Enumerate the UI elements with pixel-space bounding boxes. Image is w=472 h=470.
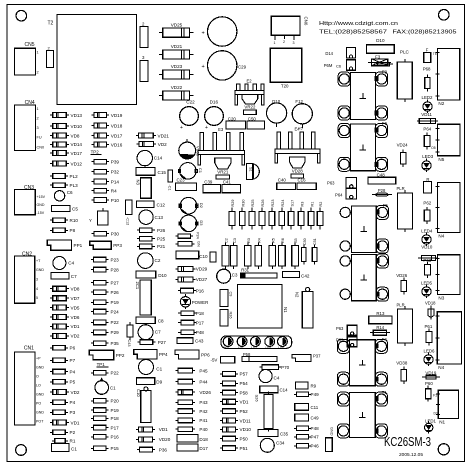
svg-text:P64: P64 [423, 126, 431, 131]
resistor P27 colB [91, 282, 94, 284]
resistor P46b [294, 445, 297, 447]
diode VD29 [176, 268, 179, 270]
svg-text:C6: C6 [336, 63, 342, 68]
svg-text:GND: GND [36, 268, 44, 272]
svg-text:+15V: +15V [37, 195, 46, 199]
relay T1 package [350, 393, 376, 438]
svg-text:C3: C3 [233, 238, 237, 243]
resistor P43 botmid [175, 401, 178, 403]
svg-text:P60: P60 [425, 381, 433, 386]
svg-text:P20: P20 [111, 399, 120, 404]
svg-text:C1: C1 [110, 386, 116, 391]
resistor P3 low [50, 411, 53, 413]
resistor P16 colBlow [91, 436, 94, 438]
diode VD2 mid [50, 335, 53, 337]
resistor C51v [314, 245, 316, 248]
resistor P10 [91, 199, 94, 201]
svg-text:VD29: VD29 [196, 267, 208, 272]
svg-text:P35: P35 [111, 341, 120, 346]
svg-text:VD8: VD8 [71, 133, 80, 138]
svg-text:C5: C5 [72, 207, 78, 212]
svg-text:P26: P26 [157, 228, 166, 233]
diode VD2 low [50, 391, 53, 393]
capacitor C49 [295, 414, 309, 421]
resistor PL2 [50, 175, 53, 177]
svg-text:R10: R10 [70, 218, 79, 223]
resistor P44 botmid [175, 381, 178, 383]
svg-text:P28: P28 [378, 188, 386, 193]
svg-text:GND: GND [36, 411, 44, 415]
relay N1 body [438, 390, 458, 418]
svg-text:C7: C7 [71, 274, 77, 279]
svg-text:P47: P47 [311, 435, 320, 440]
svg-text:D9: D9 [156, 380, 162, 385]
resistor R30 body [241, 208, 243, 212]
diode VD10 [50, 125, 53, 127]
svg-text:VD10: VD10 [421, 245, 433, 250]
svg-text:KC26SM-3: KC26SM-3 [384, 435, 431, 449]
capacitor C-PLC [404, 59, 406, 62]
svg-text:C2: C2 [225, 238, 229, 243]
resistor R26 body [261, 208, 263, 212]
resistor VD38 [403, 367, 405, 370]
svg-text:Http://www.cdzigt.com.cn: Http://www.cdzigt.com.cn [319, 21, 398, 27]
svg-text:R3: R3 [247, 238, 251, 243]
svg-text:P52: P52 [240, 409, 249, 414]
resistor P51 botedge [220, 447, 223, 449]
svg-text:VR22: VR22 [244, 105, 256, 110]
svg-text:VD11: VD11 [421, 112, 432, 117]
svg-text:PLC: PLC [400, 50, 410, 55]
svg-text:PL2: PL2 [70, 174, 79, 179]
svg-text:N4: N4 [438, 234, 444, 239]
crystal Y1 [102, 208, 104, 211]
svg-text:FU: FU [37, 136, 42, 140]
svg-text:C43: C43 [127, 340, 131, 347]
diode VD26 botmid [175, 391, 178, 393]
svg-text:R14: R14 [376, 325, 384, 330]
svg-text:VD14: VD14 [71, 142, 83, 147]
resistor P32 [91, 171, 94, 173]
svg-text:P21: P21 [157, 244, 166, 249]
resistor R10 [50, 219, 53, 221]
svg-text:VD27: VD27 [196, 277, 208, 282]
svg-text:C10: C10 [199, 254, 208, 259]
svg-text:N1: N1 [439, 420, 445, 425]
capacitor C2 [138, 253, 154, 269]
LED1 symbol [428, 421, 430, 424]
svg-text:P28: P28 [111, 267, 120, 272]
svg-text:P22: P22 [111, 371, 120, 376]
transformer T2 [57, 15, 137, 105]
svg-text:CN1: CN1 [24, 346, 34, 352]
svg-text:VD17: VD17 [71, 151, 83, 156]
svg-text:C8: C8 [158, 319, 164, 324]
capacitor D18 [177, 435, 198, 442]
relay N4L body [437, 312, 461, 364]
capacitor C14 [137, 150, 152, 165]
LED4 symbol [426, 232, 428, 235]
svg-text:R5: R5 [272, 238, 276, 243]
svg-text:R31: R31 [241, 268, 249, 273]
svg-text:PP1: PP1 [74, 243, 83, 248]
svg-text:P45: P45 [199, 368, 208, 373]
svg-text:VD8: VD8 [71, 287, 80, 292]
svg-text:C9: C9 [229, 292, 233, 297]
connector CN6 [271, 16, 300, 35]
resistor P29 colB [91, 331, 94, 333]
resistor P48b [294, 427, 297, 429]
svg-text:-5V: -5V [211, 358, 218, 363]
svg-text:T2: T2 [48, 21, 54, 27]
svg-text:GND: GND [36, 393, 44, 397]
svg-text:S17: S17 [290, 200, 294, 207]
resistor P2 low [50, 431, 53, 433]
resistor P61 body [428, 329, 430, 332]
svg-text:P26: P26 [111, 290, 120, 295]
svg-text:+T: +T [36, 259, 41, 263]
svg-text:C29: C29 [238, 65, 247, 70]
svg-text:P30: P30 [111, 232, 120, 237]
svg-text:P63: P63 [327, 181, 335, 186]
diode VD13 [50, 114, 53, 116]
svg-text:2: 2 [283, 40, 285, 44]
diode VD7 mid [50, 297, 53, 299]
svg-text:T20: T20 [281, 84, 289, 89]
svg-text:C43: C43 [195, 339, 204, 344]
capacitor S26 body [268, 392, 270, 395]
svg-text:GND: GND [36, 366, 44, 370]
diode VD20 [136, 438, 139, 440]
svg-text:P42: P42 [199, 409, 208, 414]
svg-text:PP3: PP3 [113, 243, 122, 248]
diode VD16 colB [91, 144, 94, 146]
LED L02 [237, 337, 247, 347]
capacitor small mid [210, 252, 216, 262]
resistor P14 [91, 181, 94, 183]
svg-text:P68: P68 [423, 67, 431, 72]
svg-text:L05: L05 [278, 346, 284, 350]
capacitor C11 [295, 404, 309, 411]
svg-text:P58: P58 [240, 390, 249, 395]
relay N2 body [437, 49, 459, 100]
resistor P63 body [426, 262, 428, 265]
capacitor C43 [177, 338, 193, 344]
svg-text:POWER: POWER [192, 300, 209, 305]
relay F7 package [351, 255, 376, 301]
svg-text:P7: P7 [70, 358, 76, 363]
svg-text:VD1: VD1 [71, 324, 80, 329]
diode VD21c [136, 135, 139, 137]
resistor P15 colBlow [91, 447, 94, 449]
resistor P16 [178, 290, 181, 292]
svg-text:2005.12.05: 2005.12.05 [399, 452, 424, 457]
svg-text:P19: P19 [111, 408, 120, 413]
svg-text:P70: P70 [281, 365, 290, 370]
svg-text:VD21: VD21 [171, 44, 183, 49]
relay N3 body [437, 255, 460, 295]
diode VD18 colB [91, 125, 94, 127]
svg-text:T1: T1 [382, 390, 388, 395]
svg-text:P6: P6 [70, 346, 76, 351]
svg-text:GND: GND [330, 427, 334, 436]
pot PP4 [134, 350, 157, 360]
capacitor C13 [139, 210, 153, 224]
svg-text:5: 5 [36, 296, 38, 300]
svg-text:P16: P16 [196, 288, 205, 293]
svg-text:L02: L02 [238, 346, 244, 350]
svg-text:3: 3 [36, 278, 38, 282]
svg-text:P6M: P6M [324, 63, 333, 68]
vreg VR22 [242, 95, 258, 105]
resistor P18 [178, 312, 181, 314]
resistor P47b [294, 436, 297, 438]
svg-text:CN5: CN5 [25, 42, 35, 48]
svg-text:P14: P14 [111, 179, 120, 184]
svg-text:P27: P27 [111, 281, 120, 286]
svg-text:2: 2 [142, 22, 145, 27]
vreg VR21 [215, 158, 231, 169]
resistor P27 [138, 341, 141, 343]
svg-text:1: 1 [37, 107, 39, 111]
svg-text:P61: P61 [425, 324, 433, 329]
svg-text:C14: C14 [154, 156, 163, 161]
relay F5 package [351, 206, 376, 253]
svg-text:P10: P10 [111, 198, 120, 203]
resistor P17 colBlow [91, 427, 94, 429]
svg-text:P63: P63 [336, 326, 344, 331]
svg-text:P3: P3 [70, 410, 76, 415]
svg-text:LED6: LED6 [424, 349, 436, 354]
resistor P49b [294, 393, 297, 395]
resistor P21 [137, 245, 140, 247]
svg-text:P27: P27 [158, 340, 167, 345]
mounting hole top-right [439, 10, 450, 21]
svg-text:P39: P39 [111, 160, 120, 165]
svg-text:PP6: PP6 [201, 353, 210, 358]
svg-text:R30: R30 [241, 200, 245, 207]
mounting hole bottom-right [438, 444, 449, 455]
svg-text:VD23: VD23 [171, 64, 183, 69]
resistor R29 body [231, 208, 233, 212]
LED L03 [251, 337, 261, 347]
resistor VD26r [403, 278, 405, 281]
LED2 symbol [427, 99, 429, 102]
svg-text:P32: P32 [111, 169, 120, 174]
svg-text:C22: C22 [186, 100, 195, 105]
resistor S17 body [290, 208, 292, 212]
resistor P36 [137, 449, 140, 451]
svg-text:LED2: LED2 [422, 95, 434, 100]
svg-text:POT: POT [36, 420, 44, 424]
svg-text:2C1: 2C1 [135, 282, 140, 290]
svg-text:C3: C3 [232, 273, 238, 278]
resistor P24d [176, 235, 179, 237]
svg-text:S1: S1 [249, 167, 253, 172]
svg-text:P41: P41 [199, 418, 208, 423]
relay N5 body [437, 124, 460, 156]
svg-text:D14: D14 [325, 51, 333, 56]
svg-text:C6: C6 [67, 190, 73, 195]
resistor R3 body [300, 208, 302, 212]
LED3 symbol [426, 158, 428, 161]
resistor P20 colBlow [91, 400, 94, 402]
svg-text:F4: F4 [382, 337, 388, 342]
svg-text:PLR: PLR [397, 186, 405, 191]
svg-text:F2: F2 [382, 70, 388, 75]
svg-text:VD7: VD7 [71, 296, 80, 301]
svg-text:PP4: PP4 [159, 352, 168, 357]
resistor P28 colB [91, 269, 94, 271]
svg-text:C49: C49 [311, 416, 320, 421]
LED L05 [278, 337, 288, 347]
svg-text:3: 3 [142, 55, 145, 60]
svg-text:TP1: TP1 [97, 362, 106, 367]
resistor P48 [178, 331, 181, 333]
capacitor C34 [260, 438, 274, 452]
diode VD6 mid [50, 316, 53, 318]
pot PP1 [47, 240, 71, 250]
svg-text:P44: P44 [199, 379, 208, 384]
svg-text:R25: R25 [251, 200, 255, 207]
resistor R23 body [271, 208, 273, 212]
resistor P41 botmid [175, 419, 178, 421]
resistor above F2 [374, 63, 393, 65]
resistor R1 body [310, 208, 312, 212]
svg-text:D16: D16 [210, 100, 219, 105]
svg-text:O: O [36, 375, 39, 379]
svg-text:N2: N2 [438, 101, 444, 106]
svg-text:VD26: VD26 [199, 390, 211, 395]
svg-text:VD1: VD1 [71, 420, 80, 425]
svg-text:P48: P48 [196, 330, 205, 335]
svg-text:R3: R3 [300, 202, 304, 207]
resistor P25 [137, 238, 140, 240]
resistor P7 low [50, 359, 53, 361]
diode VD11 botedge [220, 420, 223, 422]
resistor R24 body [281, 208, 283, 212]
resistor PL3 [50, 184, 53, 186]
diode VD22c [136, 143, 139, 145]
mounting hole top-left [16, 10, 27, 21]
transformer T1 [270, 48, 302, 82]
diode VD17 [50, 152, 53, 154]
svg-text:L03: L03 [251, 346, 257, 350]
transistor Q1 [180, 163, 197, 180]
pot PP5 [292, 355, 311, 362]
svg-text:VD24: VD24 [397, 142, 409, 147]
svg-text:+: + [180, 125, 183, 131]
svg-text:R2: R2 [319, 202, 323, 207]
svg-text:C51: C51 [313, 238, 317, 245]
svg-text:LED4: LED4 [421, 229, 433, 234]
pot PP2 [89, 350, 113, 360]
svg-text:+P: +P [36, 357, 41, 361]
resistor P45 botmid [175, 370, 178, 372]
svg-text:R1: R1 [70, 439, 76, 444]
svg-text:P4: P4 [70, 400, 76, 405]
svg-text:P16: P16 [111, 435, 120, 440]
svg-text:VD13: VD13 [71, 113, 83, 118]
svg-text:VD10: VD10 [240, 427, 252, 432]
svg-text:VD11: VD11 [240, 418, 252, 423]
capacitor C4 low [259, 370, 272, 383]
capacitor C10 wide [176, 251, 199, 259]
heatsink E2 [237, 84, 240, 91]
relay N4 body [437, 183, 460, 233]
diode VD1 mid [50, 325, 53, 327]
svg-text:VD20: VD20 [159, 437, 171, 442]
svg-text:F5: F5 [383, 203, 389, 208]
svg-text:N4: N4 [438, 365, 444, 370]
svg-text:N5: N5 [438, 157, 444, 162]
vreg VD28 [290, 157, 306, 168]
svg-text:P17: P17 [111, 425, 120, 430]
resistor P52 botedge [220, 410, 223, 412]
capacitor R9 [296, 382, 309, 389]
resistor P4 low [50, 371, 53, 373]
resistor P42 botmid [175, 410, 178, 412]
svg-text:VD18: VD18 [111, 123, 123, 128]
svg-text:P5: P5 [70, 380, 76, 385]
svg-text:C1: C1 [198, 168, 203, 174]
svg-text:R26: R26 [229, 312, 233, 319]
svg-text:C4: C4 [274, 376, 280, 381]
resistor GNDd [176, 243, 179, 245]
svg-text:P50: P50 [240, 436, 249, 441]
resistor P22 colB [91, 321, 94, 323]
resistor P19 colBlow [91, 409, 94, 411]
svg-text:P17: P17 [196, 320, 205, 325]
LED5 symbol [426, 284, 428, 287]
svg-text:VD2: VD2 [158, 142, 167, 147]
resistor P35 colB [91, 342, 94, 344]
svg-text:R9: R9 [311, 384, 317, 389]
capacitor C9 side [220, 290, 228, 307]
LED6 symbol [428, 352, 430, 355]
diode VD1 low [50, 422, 53, 424]
diode VD10 botedge [220, 428, 223, 430]
svg-text:P22: P22 [111, 320, 120, 325]
resistor R25 body [251, 208, 253, 212]
svg-text:D3: D3 [199, 220, 204, 226]
resistor R2 body [319, 208, 321, 212]
svg-text:D17: D17 [199, 446, 208, 451]
svg-text:P51: P51 [240, 446, 249, 451]
svg-text:P62: P62 [423, 201, 431, 206]
capacitor C3 round [217, 269, 231, 283]
capacitor D10b [136, 271, 156, 278]
svg-text:P43: P43 [199, 400, 208, 405]
svg-text:N3: N3 [136, 180, 141, 186]
resistor P26 colB [91, 291, 94, 293]
transistor Q2 [180, 197, 197, 214]
resistor P57 botedge [220, 373, 223, 375]
svg-text:LO: LO [36, 384, 41, 388]
diode VD19 colB [91, 114, 94, 116]
resistor sideC43 body [129, 322, 131, 325]
resistor P64 body [426, 132, 428, 135]
LED L04 [265, 337, 275, 347]
svg-text:P2: P2 [70, 430, 76, 435]
diode VD30 topview [179, 142, 196, 159]
capacitor tall mid2 [404, 306, 406, 309]
resistor P70 body [259, 366, 262, 368]
svg-text:VD1: VD1 [240, 400, 249, 405]
capacitor C4 [53, 257, 66, 270]
svg-text:F6: F6 [382, 121, 388, 126]
resistor P26 [137, 229, 140, 231]
